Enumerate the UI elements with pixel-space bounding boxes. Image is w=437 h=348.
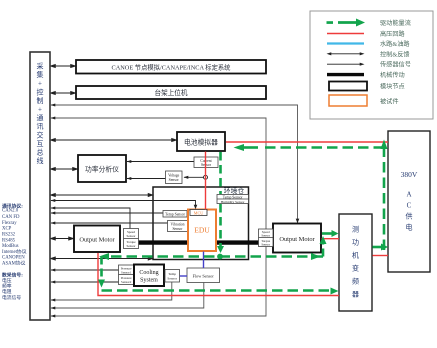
svg-text:Sensor: Sensor: [261, 234, 271, 238]
legend 控制&反馈: [327, 50, 410, 58]
svg-text:Flexray: Flexray: [2, 221, 17, 226]
svg-text:总: 总: [37, 148, 44, 157]
svg-text:Flow Sensor: Flow Sensor: [193, 273, 215, 278]
energy green dashed: vertical riser at 380V: [383, 149, 386, 250]
svg-text:控制&反馈: 控制&反馈: [380, 50, 410, 58]
svg-text:电流信号: 电流信号: [2, 294, 21, 301]
svg-text:Temp Sensor: Temp Sensor: [165, 212, 186, 216]
node 台架上位机: [76, 86, 266, 99]
sensor Current Sensor: [194, 157, 218, 168]
svg-text:Sensor: Sensor: [127, 234, 137, 238]
node MCU: [190, 210, 207, 216]
sensor Pressure Sensor1/2 stack: [119, 265, 135, 285]
sensor cooling Temp Sensor: [165, 270, 180, 283]
svg-text:频: 频: [352, 277, 359, 286]
svg-text:电压: 电压: [2, 277, 12, 284]
svg-text:制: 制: [37, 96, 44, 105]
svg-text:采: 采: [37, 62, 44, 71]
svg-text:通: 通: [37, 113, 44, 122]
HV red line right motor to dyno inverter: [322, 238, 340, 240]
svg-text:数采信号:: 数采信号:: [2, 272, 23, 279]
node CANOE 节点模拟/CANAPE/INCA 标定系统: [76, 60, 266, 74]
wire bus to chamber Temp Sensor: [51, 212, 165, 214]
svg-text:XCP: XCP: [2, 227, 12, 232]
svg-text:Internet协议: Internet协议: [2, 248, 27, 255]
svg-text:环境仓: 环境仓: [224, 186, 245, 195]
svg-text:ASAM协议: ASAM协议: [2, 259, 26, 266]
svg-text:CAN2.0: CAN2.0: [2, 209, 19, 214]
svg-text:MCU: MCU: [194, 210, 204, 215]
svg-text:Temp Sensor: Temp Sensor: [223, 195, 244, 199]
svg-text:功率分析仪: 功率分析仪: [85, 164, 119, 173]
energy green arrow dyno to 380V: [373, 246, 382, 249]
HV red line battery to 380V: [226, 141, 388, 143]
svg-text:Sensor: Sensor: [127, 244, 137, 248]
sensor chamber Temp Sensor: [163, 211, 187, 218]
svg-text:互: 互: [37, 140, 44, 148]
legend 模块节点: [329, 82, 405, 91]
node 功率分析仪: [78, 155, 126, 182]
energy green: drop at left motor: [100, 257, 103, 280]
svg-text:Temp: Temp: [168, 272, 176, 276]
sensor right Speed/Torque stack: [259, 229, 274, 247]
svg-text:Output Motor: Output Motor: [79, 236, 115, 243]
svg-text:RS485: RS485: [2, 238, 16, 243]
svg-text:电: 电: [406, 223, 413, 232]
mechanical drive shaft right: [215, 240, 259, 244]
legend 驱动能量流: [327, 19, 411, 28]
wire node to Voltage Sensor: [184, 176, 204, 178]
svg-text:线: 线: [37, 156, 44, 165]
svg-text:台架上位机: 台架上位机: [155, 88, 188, 97]
wire bus to chamber lower: [51, 257, 153, 260]
wire bus to 功率分析仪 (double arrow): [51, 167, 78, 170]
node 电池模拟器: [177, 132, 225, 151]
energy green dashed: top line to battery: [243, 146, 384, 149]
svg-text:供: 供: [406, 212, 413, 221]
sensor Flow Sensor: [187, 268, 220, 283]
wire bus to left Output Motor (double arrow): [51, 237, 74, 240]
node junction circle on HV line: [204, 175, 208, 179]
legend 水路&油路: [327, 40, 410, 48]
legend 高压回路: [327, 30, 406, 38]
svg-text:Vibration: Vibration: [171, 223, 185, 227]
sensor Vibration Sensor: [168, 221, 188, 232]
svg-text:Sensor: Sensor: [261, 243, 271, 247]
wire green dashed battery branch (down into chamber) upper part: [219, 152, 222, 194]
energy green dashed: horizontal through chamber bottom: [104, 255, 323, 258]
node 测功机变频器: [339, 214, 372, 311]
legend 传感器信号: [327, 61, 411, 69]
svg-text:CAN FD: CAN FD: [2, 215, 20, 220]
svg-text:水路&油路: 水路&油路: [380, 40, 410, 48]
wire bus big loop rect2: [51, 118, 266, 316]
svg-text:机: 机: [352, 251, 359, 260]
svg-text:Sensor: Sensor: [169, 178, 180, 182]
svg-text:Humidity Sensor: Humidity Sensor: [221, 200, 246, 204]
wire bus to 电池模拟器 (double arrow): [51, 138, 177, 141]
sensor Temp/Humidity stack of chamber: [217, 195, 249, 205]
svg-text:C: C: [407, 202, 412, 210]
node right Output Motor: [273, 224, 321, 253]
svg-text:A: A: [406, 191, 411, 199]
coolant blue line EDU to Flow Sensor: [203, 252, 205, 269]
svg-text:讯: 讯: [37, 123, 44, 131]
wire bus to MCU: [51, 201, 196, 209]
sensor left Speed/Torque stack: [124, 229, 139, 249]
sensor Voltage Sensor: [166, 171, 183, 184]
energy green: bottom line to dyno: [102, 289, 331, 292]
wire bus to Vibration Sensor: [51, 222, 170, 224]
HV red line left motor to dyno inverter: [98, 253, 339, 296]
svg-text:电阻: 电阻: [2, 288, 12, 295]
mechanical drive shaft left: [139, 240, 191, 244]
node bus 采集+控制+通讯交互总线: [30, 52, 50, 320]
left protocol text block 通讯协议: [2, 202, 27, 266]
wire bus to cooling Temp Sensor: [51, 282, 172, 300]
legend box: [310, 11, 433, 119]
HV red line battery down to MCU: [205, 152, 207, 210]
svg-text:驱动能量流: 驱动能量流: [380, 19, 411, 27]
svg-text:Sensor2: Sensor2: [121, 280, 132, 284]
wire bus loop to right Output Motor top: [51, 105, 298, 223]
svg-text:CANOPEN: CANOPEN: [2, 256, 25, 261]
DUT EDU orange box: [188, 210, 216, 252]
svg-text:Output Motor: Output Motor: [279, 236, 315, 243]
svg-text:电池模拟器: 电池模拟器: [184, 137, 218, 146]
svg-text:控: 控: [37, 87, 44, 96]
svg-text:Sensor: Sensor: [172, 227, 183, 231]
wire bus to CANOE (double arrow): [51, 64, 76, 67]
wire green dashed battery branch lower part with arrow to junction: [219, 204, 222, 246]
svg-text:RS232: RS232: [2, 233, 16, 238]
wire Voltage Sensor to 功率分析仪: [127, 178, 166, 180]
svg-text:功: 功: [352, 238, 359, 247]
node left Output Motor: [74, 226, 120, 253]
svg-text:测: 测: [352, 226, 359, 234]
svg-text:Voltage: Voltage: [168, 173, 180, 177]
svg-text:模块节点: 模块节点: [380, 83, 405, 91]
wire bus to 台架上位机 (double arrow): [51, 91, 76, 94]
HV red line dyno inverter to 380V: [373, 255, 389, 257]
left signal text block 数采信号: [2, 272, 23, 301]
legend 机械传动: [327, 71, 405, 79]
svg-text:Sensor1: Sensor1: [121, 270, 132, 274]
wire bus to left speed/torque sensors: [51, 208, 130, 229]
wire bus to Flow Sensor: [51, 283, 204, 309]
svg-text:EDU: EDU: [194, 226, 210, 235]
wire Current Sensor to 功率分析仪: [127, 161, 194, 163]
svg-text:System: System: [140, 278, 158, 284]
svg-text:传感器信号: 传感器信号: [380, 61, 411, 69]
node 环境仓 chamber box: [153, 187, 249, 260]
svg-text:交: 交: [37, 130, 44, 139]
svg-text:ModBus: ModBus: [2, 244, 19, 249]
svg-text:变: 变: [352, 264, 359, 273]
svg-text:集: 集: [37, 70, 44, 79]
svg-text:+: +: [38, 80, 42, 88]
svg-text:Sensor: Sensor: [167, 277, 177, 281]
svg-text:机械传动: 机械传动: [380, 71, 405, 79]
svg-text:高压回路: 高压回路: [380, 30, 406, 38]
svg-text:器: 器: [352, 291, 359, 299]
node 380V AC 供电: [388, 131, 430, 272]
wire bus to chamber upper: [51, 193, 153, 196]
node Cooling System: [134, 265, 164, 287]
energy green arrow into dyno upper: [322, 232, 332, 235]
svg-text:被试件: 被试件: [380, 98, 399, 106]
svg-text:CANOE 节点模拟/CANAPE/INCA 标定系统: CANOE 节点模拟/CANAPE/INCA 标定系统: [112, 62, 232, 71]
svg-text:380V: 380V: [401, 170, 418, 179]
coolant blue line Temp Sensor to Flow Sensor: [180, 275, 187, 277]
svg-text:+: +: [38, 106, 42, 114]
wire bus to Pressure Sensor1: [51, 269, 119, 271]
energy green: riser to right motor/dyno: [322, 244, 325, 257]
wire bus to Pressure Sensor2: [51, 281, 119, 283]
svg-text:频率: 频率: [2, 283, 12, 290]
svg-text:Cooling: Cooling: [139, 270, 158, 276]
energy green junction dot: [217, 254, 223, 260]
legend 被试件: [329, 95, 399, 106]
svg-text:Sensor: Sensor: [201, 163, 212, 167]
